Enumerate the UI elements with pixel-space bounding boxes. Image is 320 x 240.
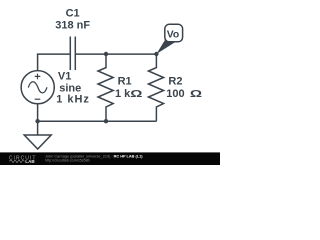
node Vo junction dot: [154, 52, 158, 56]
svg-text:1 k: 1 k: [115, 88, 131, 100]
footer bar: [0, 152, 220, 165]
resistor R2: [148, 54, 163, 121]
voltage source V1: [21, 71, 54, 122]
footer text: [45, 154, 143, 162]
wire C1 right plate to node Vo: [75, 53, 156, 55]
svg-text:1 kHz: 1 kHz: [56, 93, 90, 105]
capacitor C1: [70, 37, 75, 71]
svg-text:C1: C1: [66, 8, 80, 20]
node junction dot C1-R1: [104, 52, 108, 56]
ground: [24, 121, 51, 149]
resistor R1: [98, 54, 113, 121]
svg-text:V1: V1: [58, 71, 71, 83]
svg-text:R1: R1: [118, 76, 132, 88]
svg-text:318 nF: 318 nF: [55, 19, 90, 31]
wire bottom rail: [38, 120, 157, 122]
junction dot R1 bottom: [104, 119, 108, 123]
svg-text:R2: R2: [168, 76, 182, 88]
svg-text:http://circuitlab.com/c5z68b: http://circuitlab.com/c5z68b: [45, 158, 90, 162]
svg-text:Vo: Vo: [167, 30, 180, 41]
svg-text:100: 100: [166, 88, 184, 100]
flag Vo pointer: [156, 40, 174, 54]
flag Vo box: [165, 24, 183, 42]
svg-text:Ω: Ω: [190, 87, 202, 99]
svg-text:LAB: LAB: [25, 159, 35, 164]
junction dot V1 bottom: [35, 119, 39, 123]
logo CircuitLab: [9, 155, 37, 164]
svg-text:Ω: Ω: [130, 87, 142, 99]
wire V1 top to C1 left plate: [38, 54, 71, 70]
